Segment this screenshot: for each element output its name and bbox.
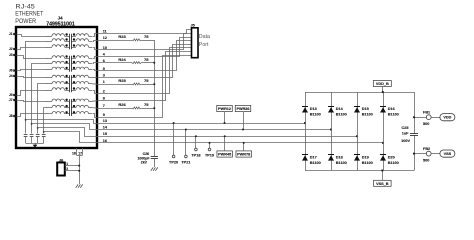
svg-text:B1100: B1100 xyxy=(310,113,321,117)
svg-text:9: 9 xyxy=(103,113,105,117)
svg-text:J7: J7 xyxy=(9,98,13,102)
svg-text:2: 2 xyxy=(103,89,105,93)
svg-text:J8: J8 xyxy=(9,114,13,118)
svg-text:D15: D15 xyxy=(362,107,369,111)
svg-text:RJ-45: RJ-45 xyxy=(16,4,35,11)
svg-text:J1: J1 xyxy=(9,32,13,36)
svg-text:J5: J5 xyxy=(191,23,195,27)
svg-text:TP20: TP20 xyxy=(169,161,178,165)
svg-text:2kV: 2kV xyxy=(141,160,148,164)
svg-text:J4: J4 xyxy=(9,74,13,78)
svg-text:D13: D13 xyxy=(310,107,317,111)
svg-text:15: 15 xyxy=(103,132,107,136)
svg-text:TP18: TP18 xyxy=(191,154,200,158)
svg-text:R23: R23 xyxy=(118,34,126,39)
svg-text:D18: D18 xyxy=(336,155,343,159)
svg-text:D17: D17 xyxy=(310,155,317,159)
svg-text:B1100: B1100 xyxy=(336,161,347,165)
svg-text:1: 1 xyxy=(103,80,105,84)
svg-text:B1100: B1100 xyxy=(388,161,399,165)
svg-text:C25: C25 xyxy=(402,126,409,130)
svg-text:75: 75 xyxy=(144,78,149,83)
svg-text:75: 75 xyxy=(144,57,149,62)
svg-text:J3: J3 xyxy=(9,53,13,57)
svg-text:1: 1 xyxy=(66,162,68,166)
svg-text:D14: D14 xyxy=(336,107,344,111)
svg-text:500: 500 xyxy=(423,159,429,163)
svg-text:B1100: B1100 xyxy=(388,113,399,117)
svg-text:D16: D16 xyxy=(388,107,395,111)
svg-text:TP21: TP21 xyxy=(181,161,190,165)
svg-text:PWR45: PWR45 xyxy=(218,152,231,156)
svg-text:FB2: FB2 xyxy=(423,147,430,151)
svg-text:18: 18 xyxy=(72,152,76,156)
svg-text:75: 75 xyxy=(144,102,149,107)
svg-text:R26: R26 xyxy=(118,102,126,107)
svg-text:B1100: B1100 xyxy=(362,113,373,117)
svg-text:Port: Port xyxy=(199,42,209,48)
svg-text:POWER: POWER xyxy=(15,18,36,25)
svg-text:VSS: VSS xyxy=(444,152,452,156)
svg-text:7: 7 xyxy=(103,104,105,108)
svg-text:TP19: TP19 xyxy=(205,154,214,158)
svg-text:13: 13 xyxy=(103,119,107,123)
svg-text:D20: D20 xyxy=(388,155,395,159)
svg-text:2: 2 xyxy=(66,167,68,171)
svg-text:VSS_B: VSS_B xyxy=(376,182,389,186)
svg-text:11: 11 xyxy=(103,29,107,33)
svg-text:1uF: 1uF xyxy=(402,131,409,135)
svg-text:VDD: VDD xyxy=(443,116,451,120)
svg-text:B1100: B1100 xyxy=(310,161,321,165)
svg-text:17: 17 xyxy=(78,152,82,156)
svg-text:B1100: B1100 xyxy=(336,113,347,117)
svg-text:R25: R25 xyxy=(118,78,126,83)
svg-text:500: 500 xyxy=(423,122,429,126)
svg-text:PWR36: PWR36 xyxy=(236,107,249,111)
svg-text:FB1: FB1 xyxy=(423,110,430,114)
svg-text:ETHERNET: ETHERNET xyxy=(15,11,43,18)
svg-text:J5: J5 xyxy=(9,93,13,97)
svg-text:R24: R24 xyxy=(118,57,126,62)
svg-text:Data: Data xyxy=(199,34,210,40)
svg-text:J4: J4 xyxy=(57,15,63,20)
svg-text:D19: D19 xyxy=(362,155,369,159)
svg-text:PWR12: PWR12 xyxy=(218,107,231,111)
svg-text:J2: J2 xyxy=(9,47,13,51)
svg-text:VDD_B: VDD_B xyxy=(376,82,389,86)
svg-text:100V: 100V xyxy=(401,139,410,143)
svg-text:PWR78: PWR78 xyxy=(237,152,250,156)
svg-text:J6: J6 xyxy=(9,69,13,73)
svg-text:75: 75 xyxy=(144,34,149,39)
svg-text:B1100: B1100 xyxy=(362,161,373,165)
svg-text:3: 3 xyxy=(103,74,105,78)
svg-text:12: 12 xyxy=(103,36,107,40)
